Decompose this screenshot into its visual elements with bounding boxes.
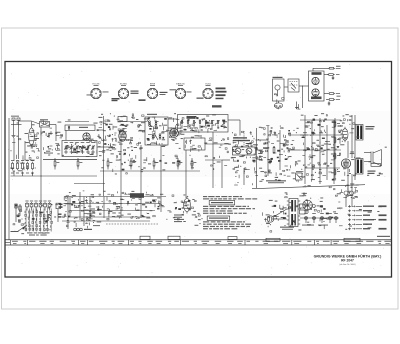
ground left [12,133,16,138]
svg-text:(ab Ger.-Nr. 5000): (ab Ger.-Nr. 5000) [339,264,355,266]
notes text block [203,196,257,229]
rectifier socket circle [303,200,316,210]
variable capacitor C4 [81,142,85,154]
scan tone wash [9,111,390,177]
EABC80 oval [342,127,348,143]
EL84 tube circle [341,159,350,168]
dial cord pulleys [74,225,100,231]
boxed note 1 [209,201,235,205]
ECC85 tube circle dark [169,124,178,143]
loudspeaker [364,150,382,167]
tube socket view EL84 [203,83,213,98]
ECH81 tube circle [119,131,126,141]
tube socket view EF89 [147,83,157,98]
note above legend right [377,236,390,237]
svg-text:EF89: EF89 [150,83,156,85]
terminal row 5 [348,223,372,226]
push button switch assembly [25,201,53,232]
bus wire lower left [9,118,97,240]
tuning gang box [43,141,97,160]
section divider line [252,185,365,189]
left resistor bank [11,160,34,173]
small box above divider [296,171,303,180]
scan speckle [8,64,390,275]
socket row annotations [87,88,227,108]
interconnect wires [43,128,300,198]
dashed feedback line [106,223,158,225]
extra detail texture [10,113,357,232]
svg-text:ECC85: ECC85 [92,83,100,85]
row of dropping resistors mid [54,158,196,170]
small boxes above legend [140,236,237,239]
wire antenna to coil [19,121,57,141]
switch right link [56,203,61,222]
variable capacitor C3 [75,142,79,154]
svg-text:EL84: EL84 [205,83,211,85]
dark relay box [130,193,144,198]
below output cluster [341,185,359,207]
switch left lever [13,204,25,225]
tube socket view EABC80 [175,82,185,98]
text block small mid [174,215,184,223]
phase splitter oval [182,196,197,215]
dial lamp row [300,213,339,223]
box below AM band [184,138,229,152]
oscillator tube circle [83,133,90,140]
svg-text:EABC80: EABC80 [176,82,185,85]
variable capacitor C1 [64,142,68,154]
AM band box contents [180,117,227,133]
eye right components upper [324,66,341,80]
box pickup unit [273,77,285,104]
lower left small parts [10,158,36,175]
variable capacitor C6 [91,142,95,154]
ratio detector chain [263,126,291,176]
terminal row 2 [348,210,372,213]
AM input band box [178,115,229,133]
dark blob accents [15,116,341,229]
left tuned group [43,143,60,154]
switch box (dashed) [288,79,299,92]
variable capacitor C2 [70,142,74,154]
AF preamp circuit wires [63,192,166,227]
terminal row 4 [348,219,387,222]
legend strip [5,238,392,245]
terminal row 3 [348,214,387,217]
input coil L1 [25,122,40,148]
power section texts [300,200,343,230]
mains plug [266,209,287,225]
boxed note 2 [207,216,230,220]
IF transformer box [232,131,265,174]
ratio transformer T1 [356,125,375,141]
variable capacitor C5 [86,142,90,154]
right column resistor chain [334,118,340,178]
output transformer T2 [356,159,376,175]
switch diagonal pointer [11,225,28,232]
AF coupling parts [265,169,291,183]
switch side dark marks [58,204,63,218]
magic eye EM80 unit [309,71,325,101]
mixer surrounding parts [86,113,141,196]
tube socket view ECH81 [118,83,128,98]
switch caption [27,232,50,235]
additional wires [14,119,352,229]
right mid cluster wires [300,115,355,184]
power transformer [280,199,300,230]
schematic border frame [5,62,392,278]
antenna terminals [11,116,22,133]
wire stub below eye [295,102,300,110]
terminal row 1 [348,205,387,208]
terminal row 6 [348,228,387,231]
voltage selector [280,202,309,214]
svg-text:RF 2047: RF 2047 [341,259,354,263]
gang small parts [67,143,93,154]
tube socket view ECC85 [91,83,101,98]
wires pickup to eye [284,68,329,108]
eye right components lower [324,93,341,106]
svg-text:ECH81: ECH81 [120,83,128,85]
trimmer box [40,119,52,138]
value label sprinkle [13,113,387,234]
long coil box [65,125,95,140]
FM front end box [145,114,168,145]
pickup coil [274,101,282,109]
